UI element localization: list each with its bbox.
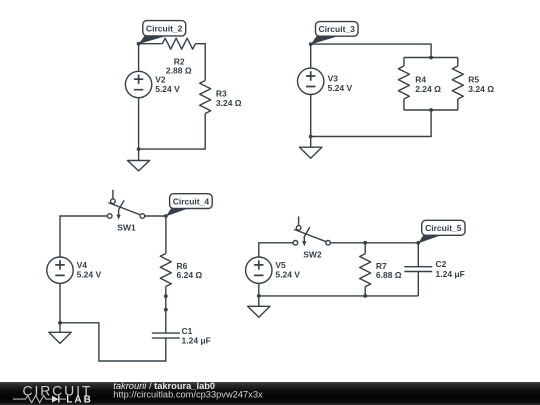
junction bottom of circuit 3 [309,135,313,139]
svg-text:C2: C2 [436,259,447,269]
node label Circuit_5 [418,220,465,243]
resistor R4 [398,66,441,99]
switch SW2 [293,216,330,259]
junction bottom of V4 [58,321,62,325]
node label Circuit_3 [311,22,358,45]
svg-text:V4: V4 [77,260,88,270]
voltage source V4 [47,257,102,283]
wire V4 bottom [59,283,61,322]
wire bottom of circuit 5 [259,295,419,297]
wire to R7 [364,243,366,254]
svg-text:http://circuitlab.com/cp33pvw2: http://circuitlab.com/cp33pvw247x3x [113,390,263,400]
junction top of R7 [363,241,367,245]
voltage source V5 [246,257,301,283]
wire node to R2 [139,43,163,45]
wire V2 bottom [138,98,140,149]
ground (circuit 5) [248,296,270,317]
resistor R3 [200,81,242,114]
ground (circuit 3) [300,137,322,159]
voltage source V3 [298,68,353,94]
svg-text:2.24 Ω: 2.24 Ω [415,84,441,94]
node top of C2 [416,241,420,245]
wire V4 top to switch [60,216,107,257]
svg-text:2.88 Ω: 2.88 Ω [166,66,192,76]
junction R7 bottom [363,294,367,298]
svg-text:5.24 V: 5.24 V [155,84,180,94]
voltage source V2 [125,71,180,97]
ground (circuit 4) [49,323,71,344]
svg-text:1.24 μF: 1.24 μF [436,269,465,279]
junction dot upper [164,294,168,298]
junction bottom of circuit 2 [137,147,141,151]
svg-text:1.24 μF: 1.24 μF [182,335,211,345]
resistor R6 [160,254,202,287]
wire switch to C2 node [330,242,418,244]
wire node to R6 [165,216,167,254]
wire switch to node [145,215,166,217]
node label Circuit_4 [166,194,212,217]
svg-text:6.24 Ω: 6.24 Ω [177,270,203,280]
svg-text:R5: R5 [468,74,479,84]
wire R7 bottom [364,287,366,296]
wire node to V2 top [138,44,140,72]
wire R6 to C1 [165,287,167,334]
svg-text:V2: V2 [155,74,166,84]
node label Circuit_2 [139,21,186,44]
wire V5 top to switch [259,243,293,257]
svg-text:5.24 V: 5.24 V [275,270,300,280]
svg-text:SW1: SW1 [117,223,136,233]
wire bottom of circuit 3 [311,110,431,137]
svg-text:5.24 V: 5.24 V [77,270,102,280]
svg-text:3.24 Ω: 3.24 Ω [468,84,494,94]
wire R5 top lead [457,58,459,67]
node top of R6 [164,214,168,218]
svg-text:V3: V3 [328,74,339,84]
junction top parallel [429,56,433,60]
resistor R5 [452,66,494,99]
node top of circuit 3 [309,42,313,46]
svg-text:LAB: LAB [66,395,93,405]
footer credit text [113,381,263,400]
svg-text:R4: R4 [415,74,426,84]
wire V5 bottom [258,283,260,296]
capacitor C2 [404,243,465,296]
wire R2 to top-right corner [195,44,205,81]
wire R3 to bottom [139,114,206,150]
svg-text:5.24 V: 5.24 V [328,83,353,93]
svg-text:R3: R3 [216,88,227,98]
wire top of circuit 3 [311,44,431,57]
wire top bracket [404,57,458,59]
svg-text:V5: V5 [275,260,286,270]
svg-text:SW2: SW2 [303,249,322,259]
wire V3 bottom [310,95,312,137]
junction dot lower [164,308,168,312]
svg-text:Circuit_2: Circuit_2 [146,24,183,34]
junction bottom parallel [429,108,433,112]
svg-text:Circuit_4: Circuit_4 [173,196,210,206]
resistor R7 [360,254,402,287]
ground (circuit 2) [128,149,150,171]
svg-text:6.88 Ω: 6.88 Ω [376,270,402,280]
wire R4 top lead [403,58,405,67]
wire bottom bracket [404,109,458,111]
wire V3 top [310,44,312,68]
svg-text:Circuit_5: Circuit_5 [425,223,462,233]
capacitor C1 [152,326,211,345]
svg-text:Circuit_3: Circuit_3 [319,24,356,34]
wire R5 bottom lead [457,99,459,110]
CircuitLab logo wordmark [13,382,93,405]
switch SW1 [107,190,144,233]
resistor R2 [162,38,195,75]
wire R4 bottom lead [403,99,405,110]
node A (top of circuit 2) [137,42,141,46]
wire C1 bottom loop [60,323,166,361]
junction bottom of V5 [257,294,261,298]
svg-text:3.24 Ω: 3.24 Ω [216,98,242,108]
